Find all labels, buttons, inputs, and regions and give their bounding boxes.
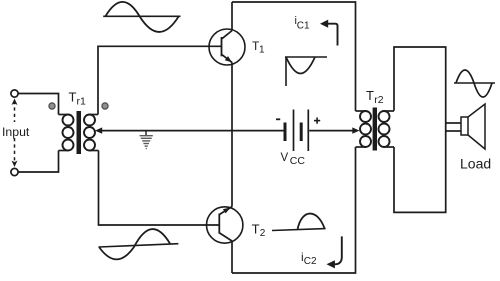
svg-text:C2: C2: [304, 256, 317, 267]
svg-text:2: 2: [260, 228, 266, 239]
svg-text:V: V: [281, 152, 289, 164]
svg-text:1: 1: [259, 45, 265, 56]
svg-text:T: T: [366, 88, 374, 103]
svg-text:r2: r2: [374, 94, 383, 106]
svg-text:Input: Input: [2, 125, 30, 139]
svg-text:T: T: [69, 90, 77, 105]
svg-text:CC: CC: [290, 155, 306, 167]
svg-text:T: T: [252, 222, 260, 237]
svg-text:C1: C1: [297, 21, 310, 32]
svg-text:r1: r1: [77, 95, 86, 107]
svg-text:Load: Load: [460, 156, 491, 172]
